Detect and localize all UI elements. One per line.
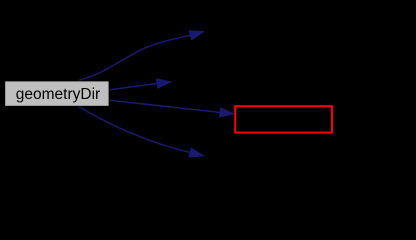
- arrowhead red-node edge: [219, 107, 235, 117]
- edge geometryDir to bottom node: [79, 107, 190, 153]
- edge geometryDir to red node: [109, 100, 220, 112]
- edge geometryDir to top node: [79, 35, 190, 80]
- node highlighted (red): [235, 106, 332, 132]
- arrowhead top edge: [189, 31, 205, 41]
- arrowhead second edge: [156, 79, 172, 89]
- svg-text:geometryDir: geometryDir: [16, 86, 100, 103]
- edge geometryDir to second node: [109, 84, 157, 90]
- arrowhead bottom edge: [189, 148, 205, 158]
- node geometryDir: [5, 81, 109, 106]
